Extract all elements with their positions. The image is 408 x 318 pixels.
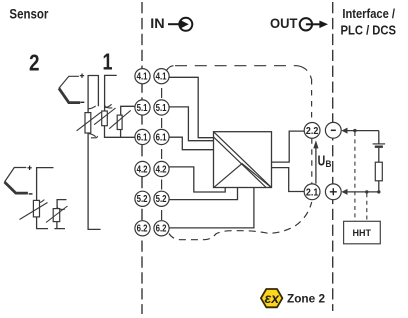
wire 6.2 to amplifier bottom [169,188,254,228]
terminal circle 4.1 right [154,69,169,84]
thermocouple sensor 2 [5,168,27,183]
supply vertical bottom [378,181,380,192]
wire minus circle to supply [346,130,379,132]
terminal circle 6.2 right [154,221,169,236]
svg-text:B: B [326,159,332,170]
jumper arc R2 top sensor 1 [105,105,113,108]
load resistor [375,162,382,181]
terminal circle 5.1 left [135,100,150,115]
terminal circle 2.2 [304,122,320,138]
svg-text:Interface /: Interface / [342,6,395,21]
svg-text:6.1: 6.1 [137,132,148,143]
svg-text:OUT: OUT [270,15,298,31]
wire 5.2 to amplifier bottom [169,188,237,200]
svg-text:PLC / DCS: PLC / DCS [341,23,397,38]
svg-text:6.2: 6.2 [156,224,167,235]
wire 4.1 to amplifier [169,77,213,137]
resistor R1 sensor 2 diagonal [20,203,48,220]
minus sign sensor 2 [29,193,33,195]
amplifier triangle [214,164,271,188]
svg-text:2.1: 2.1 [306,186,319,198]
amplifier isolation diagonal 2 [214,137,267,188]
long wire R1 sensor1 down [88,133,101,229]
output plus circle [325,184,341,200]
jumper arc R1 top sensor 2 [37,200,45,204]
svg-text:6.2: 6.2 [137,224,148,235]
terminal circle 4.2 left [135,161,150,176]
resistor R1 sensor 1 [85,113,91,133]
svg-text:Zone 2: Zone 2 [287,294,325,306]
device dashed outline right edge between 2.2 and 2.1 [311,138,313,184]
plus sign sensor 1 [80,74,84,78]
resistor R2 sensor 2 [53,209,60,222]
device dashed outline left edge [161,88,163,98]
amplifier U1 square [214,132,272,188]
device dashed outline right edge above 2.2 [311,79,313,123]
resistor R1 diagonal [77,112,101,131]
hook segment R1 bottom sensor 1 [91,136,98,138]
svg-text:U: U [318,153,326,169]
device dashed outline bottom curve [169,202,312,240]
device dashed outline top edge [175,65,298,67]
terminal circle 2.1 [304,184,320,200]
jumper arc R1 top sensor 1 [88,106,95,109]
OUT circle [300,18,312,30]
OUT arrowhead [319,21,328,29]
resistor R2 diagonal [94,108,116,125]
svg-text:2.2: 2.2 [306,125,319,137]
terminal circle 5.2 left [135,191,150,206]
terminal circle 6.1 right [154,129,169,144]
junction dot bottom left [365,190,368,193]
svg-text:1: 1 [103,49,113,75]
wire R3 top to 5.1 [121,106,135,115]
IN arrowhead [180,20,188,28]
terminal circle 6.2 left [135,221,150,236]
dashed drop to HHT right [366,193,368,221]
bracket wire gamma-1 sensor 2 [37,168,54,201]
HHT box [344,221,381,244]
wire 4.2 to amplifier bottom [169,167,225,192]
jumper arc R2 top sensor 2 [57,207,64,210]
wire plus circle to supply [346,191,379,193]
bracket wire gamma-1 sensor 1 [88,76,98,113]
junction dot top [353,129,356,132]
wire 5.1 to amplifier [169,107,213,141]
OUT arrow line [306,23,320,25]
plus sign sensor 2 [27,166,31,170]
arrowhead into plus [341,189,347,195]
svg-text:Sensor: Sensor [9,6,49,21]
bracket wire gamma-2 sensor 1 [105,75,117,111]
jumper arc R2 top rising sensor 1 [105,104,112,107]
svg-text:5.2: 5.2 [137,194,148,205]
resistor R2 sensor 1 [102,111,108,126]
U_B arrow [315,148,317,184]
wire R1 sensor 2 bottom [37,217,48,229]
resistor R3 diagonal [109,110,131,128]
corner wire R2 top sensor 2 [57,200,66,209]
zone separation dashed line right [332,2,334,311]
svg-text:εx: εx [265,290,281,306]
supply right vertical top [378,131,380,144]
terminal circle 6.1 left [135,129,150,144]
IN circle [179,18,192,31]
svg-text:2: 2 [29,50,40,76]
terminal circle 4.1 left [135,69,150,84]
svg-text:5.1: 5.1 [137,103,148,114]
terminal circle 5.1 right [154,100,169,115]
battery plate short [375,145,383,147]
wire amplifier out lower to 2.1 [272,168,305,192]
output minus circle [325,122,341,138]
wire R2 sensor 2 bottom [54,222,65,229]
jumper arc R1 bottom sensor 1 [88,134,95,137]
device dashed outline top-left arc at 4.1 [167,66,174,71]
svg-text:4.1: 4.1 [137,72,148,83]
svg-text:IN: IN [150,15,164,31]
junction dot bottom right [377,190,380,193]
amplifier isolation diagonal 1 [214,132,272,188]
svg-text:5.2: 5.2 [156,194,167,205]
supply vertical to resistor [378,148,380,162]
terminal circle 5.2 right [154,191,169,206]
Ex logo [261,289,283,307]
svg-text:4.2: 4.2 [137,164,148,175]
device dashed outline top-right corner arc [298,66,312,79]
svg-text:HHT: HHT [353,228,372,238]
resistor R1 sensor 2 [33,200,39,217]
dashed drop to HHT left [354,132,356,221]
arrowhead into minus [341,128,347,134]
wire R2 R3 bottoms to 6.1 [105,126,135,138]
svg-text:6.1: 6.1 [156,132,167,143]
svg-text:4.2: 4.2 [156,164,167,175]
svg-text:5.1: 5.1 [156,103,167,114]
wire amplifier out upper to 2.2 [272,131,305,162]
resistor R3 sensor 1 [117,115,122,129]
zone separation dashed line left [141,2,143,314]
battery plate long [373,143,386,145]
thermocouple sensor 1 [59,76,79,88]
IN arrow line [168,23,181,25]
svg-text:4.1: 4.1 [156,72,167,83]
terminal circle 4.2 right [154,161,169,176]
minus sign sensor 1 [81,101,85,103]
wire 6.1 to amplifier [169,137,213,150]
resistor R2 sensor 2 diagonal [46,206,68,223]
